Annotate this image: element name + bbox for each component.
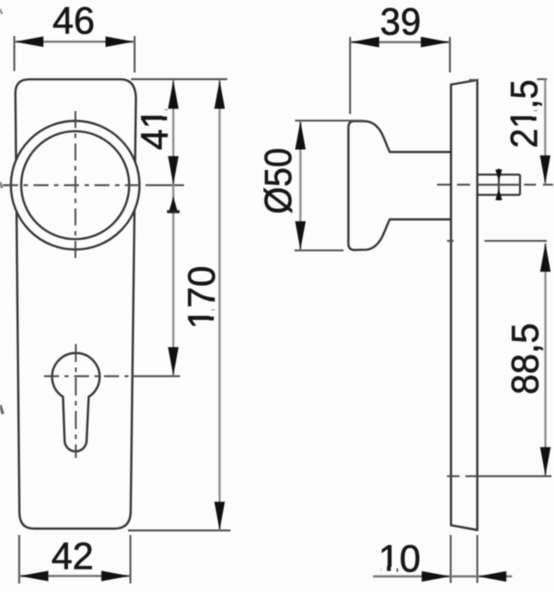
svg-text:42: 42 bbox=[51, 536, 93, 578]
svg-text:10: 10 bbox=[378, 538, 420, 580]
svg-text:170: 170 bbox=[181, 266, 223, 329]
svg-text:Ø50: Ø50 bbox=[256, 148, 299, 214]
svg-text:88,5: 88,5 bbox=[503, 323, 546, 395]
svg-text:21,5: 21,5 bbox=[503, 79, 545, 148]
svg-text:46: 46 bbox=[53, 1, 95, 43]
svg-text:41: 41 bbox=[134, 108, 176, 150]
svg-text:39: 39 bbox=[380, 0, 421, 43]
